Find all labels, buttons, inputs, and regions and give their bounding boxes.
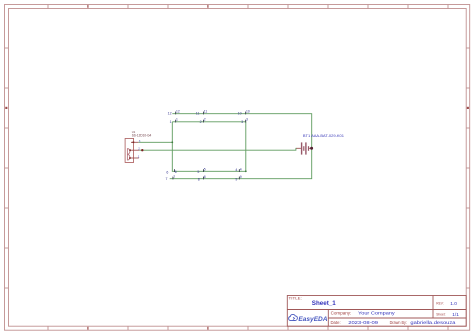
svg-text:1/1: 1/1	[452, 312, 459, 317]
svg-text:4: 4	[235, 168, 237, 172]
svg-text:Your Company: Your Company	[358, 311, 395, 316]
svg-text:12: 12	[168, 112, 172, 116]
svg-text:Drawn By:: Drawn By:	[390, 320, 407, 325]
svg-text:3: 3	[246, 118, 248, 122]
svg-text:12: 12	[176, 110, 180, 114]
svg-text:10: 10	[246, 110, 250, 114]
svg-text:5: 5	[204, 167, 206, 171]
svg-text:4: 4	[240, 167, 242, 171]
svg-text:1: 1	[176, 118, 178, 122]
svg-text:Sheet_1: Sheet_1	[312, 300, 336, 307]
svg-text:2023-08-09: 2023-08-09	[348, 321, 378, 326]
svg-text:Sheet:: Sheet:	[436, 312, 445, 316]
svg-text:9: 9	[240, 175, 242, 179]
svg-text:SS-12D10-G4: SS-12D10-G4	[132, 134, 152, 138]
svg-text:Company:: Company:	[331, 310, 352, 315]
svg-text:11: 11	[204, 110, 208, 114]
svg-text:Date:: Date:	[331, 320, 341, 325]
svg-text:7: 7	[166, 177, 168, 181]
svg-text:8: 8	[198, 177, 200, 181]
svg-text:7: 7	[173, 175, 175, 179]
svg-text:9: 9	[235, 177, 237, 181]
svg-text:EasyEDA: EasyEDA	[298, 316, 327, 323]
svg-text:6: 6	[166, 170, 168, 174]
svg-text:1.0: 1.0	[450, 301, 457, 306]
svg-text:1: 1	[170, 120, 172, 124]
svg-text:10: 10	[238, 112, 242, 116]
svg-text:BT1 AAA-BAT-029-K01: BT1 AAA-BAT-029-K01	[303, 134, 344, 138]
svg-text:2: 2	[200, 120, 202, 124]
svg-text:REV:: REV:	[436, 301, 443, 305]
svg-text:6: 6	[175, 170, 177, 174]
svg-text:5: 5	[197, 170, 199, 174]
svg-text:1: 1	[138, 155, 140, 159]
svg-text:TITLE:: TITLE:	[289, 296, 302, 301]
svg-text:11: 11	[196, 112, 200, 116]
svg-text:gabriella.desouza: gabriella.desouza	[410, 321, 455, 326]
svg-text:3: 3	[241, 120, 243, 124]
svg-text:2: 2	[204, 118, 206, 122]
svg-text:8: 8	[204, 175, 206, 179]
